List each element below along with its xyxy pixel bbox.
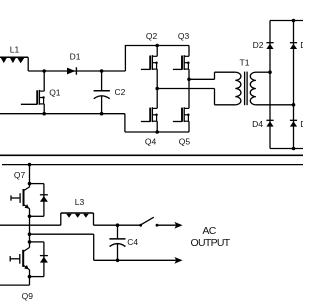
wire Q9 emitter [29,270,31,286]
diode Q9 freewheel [40,256,48,263]
transformer T1 primary winding [235,72,241,105]
wire Q5 source lead [188,121,190,132]
transformer T1 core [245,72,248,106]
wire Q7 gate lead [11,195,20,200]
arrow upper output [174,222,182,229]
node secondary bottom to right leg [292,103,296,107]
svg-text:L1: L1 [10,44,20,54]
capacitor C4 [109,225,125,260]
wire Q7 diode branch [43,184,45,217]
wire rectifier right leg [293,21,295,149]
svg-text:Q5: Q5 [179,136,191,146]
svg-text:Q9: Q9 [22,291,34,301]
node Q9 diode top [28,240,32,244]
node C4 top [116,223,120,227]
wire lower top rail [2,164,303,166]
arrow lower output [174,257,182,264]
node top rail right leg [292,19,296,23]
wire midpoint to lower output [30,234,177,260]
wire rectifier left leg [269,21,271,149]
node C2 bottom [100,112,104,116]
node right leg midpoint [187,78,191,82]
diode D4 [266,120,273,126]
svg-text:D4: D4 [252,119,263,129]
svg-text:AC: AC [202,225,216,237]
wire rectifier top rail [270,20,303,22]
node Q1 source [42,112,46,116]
wire L3 input from left [0,224,61,226]
transistor Q4 [150,107,158,122]
wire L3 to switch [94,224,141,226]
node left leg midpoint [155,87,159,91]
node bottom rail right leg [292,147,296,151]
node C2 top [100,69,104,73]
diode D1 [67,67,76,74]
node Q9 diode bottom [28,275,32,279]
svg-text:D3: D3 [300,40,303,50]
node Q7 diode top [28,182,32,186]
svg-text:Q3: Q3 [178,31,190,41]
wire Q2 gate stub [141,68,150,70]
wire secondary top [256,71,270,73]
node Q7 diode bottom [28,215,32,219]
node Q2 drain [155,44,159,48]
svg-text:C2: C2 [115,87,126,97]
wire Q2 source lead [156,69,158,88]
wire Q2 drain lead [156,46,158,57]
wire Q4 gate stub [141,121,150,123]
wire bridge top rail [125,45,189,47]
wire Q7 diode loop bottom [30,215,44,217]
transistor Q7 [20,187,30,209]
wire Q1 drain lead [43,71,45,91]
wire bridge bottom rail [125,131,189,133]
svg-text:Q1: Q1 [49,87,61,97]
wire input to bridge [28,70,125,72]
node C4 bottom [116,259,120,263]
svg-text:Q4: Q4 [145,136,157,146]
svg-text:C4: C4 [127,237,138,247]
wire Q9 gate lead [10,256,20,261]
node Q4 source [155,130,159,134]
wire switch to arrow [157,224,177,226]
transistor Q9 [20,248,30,270]
wire Q1 gate lead [21,103,37,105]
wire right midpoint to transformer [189,78,215,80]
wire Q4 source lead [156,121,158,132]
wire Q4 drain lead [156,89,158,109]
node secondary top to left leg [268,70,272,74]
inductor L1 [0,57,28,71]
wire Q7 diode loop top [30,183,44,185]
diode Q7 freewheel [40,195,48,202]
inductor L3 [61,213,94,225]
wire Q9 diode loop bottom [30,276,44,278]
wire Q5 gate stub [173,121,182,123]
wire Q5 drain lead [188,79,190,108]
node lower midpoint [28,232,32,236]
svg-text:T1: T1 [240,57,250,67]
transformer T1 secondary winding [250,72,256,105]
transformer T1 primary routing [215,72,236,105]
diode D2 [266,43,273,49]
wire Q3 source lead [188,69,190,79]
node Q7 collector rail tap [28,163,32,167]
wire Q1 source lead [43,104,45,114]
svg-text:L3: L3 [75,197,85,207]
wire Q3 drain lead [188,46,190,57]
svg-text:Q2: Q2 [146,31,158,41]
svg-text:D5: D5 [300,119,303,129]
wire Q9 diode branch [43,242,45,277]
wire Q7 emitter to Q9 collector [29,209,31,248]
capacitor C2 [94,71,110,114]
svg-text:D1: D1 [70,51,81,61]
svg-text:OUTPUT: OUTPUT [191,237,231,249]
diode D3 [290,43,297,49]
wire Q9 diode loop top [30,241,44,243]
wire jog up to bridge rail [124,46,126,72]
node Q1 drain [42,69,46,73]
wire bottom rail left [0,113,125,115]
transistor Q1 [37,90,45,105]
transistor Q3 [182,55,190,70]
wire Q3 gate stub [173,68,182,70]
diode D5 [290,120,297,126]
svg-text:D2: D2 [253,40,264,50]
wire bottom left rail [0,284,30,286]
wire secondary bottom [256,104,294,106]
wire jog down to bridge bottom rail [124,114,126,132]
wire rectifier bottom rail [270,148,303,150]
switch [139,217,158,226]
svg-text:Q7: Q7 [14,170,26,180]
transistor Q5 [182,107,190,122]
separator line [0,154,303,156]
wire mid rail to transformer [157,88,214,90]
wire Q7 collector lead [29,165,31,187]
transistor Q2 [150,55,158,70]
